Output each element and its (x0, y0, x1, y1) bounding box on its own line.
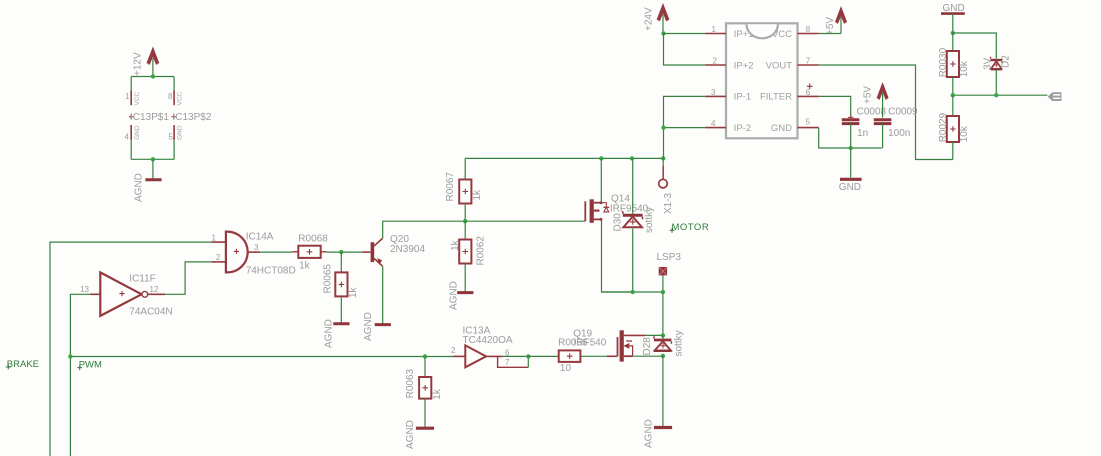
svg-text:+12V: +12V (133, 52, 144, 76)
svg-text:+5V: +5V (825, 17, 836, 35)
svg-text:R0029: R0029 (938, 112, 949, 142)
node IC13A out (526, 354, 530, 358)
svg-text:FILTER: FILTER (760, 92, 792, 103)
SECTION: q20 stage (260, 158, 585, 348)
svg-text:8: 8 (168, 92, 173, 101)
svg-text:1: 1 (712, 25, 717, 34)
node gnd junction (951, 31, 955, 35)
pin 8 of IC13P$2 (168, 91, 184, 106)
resistor R0030 (938, 33, 970, 95)
part IC13P$1 label (129, 112, 169, 123)
wire Q20 emitter down (382, 266, 384, 323)
part IC13P$2 label (171, 112, 211, 123)
svg-text:GND: GND (771, 123, 792, 134)
wire node to R0062 (464, 221, 466, 239)
SECTION: highside (465, 156, 709, 335)
pin 7 of IC13A loop (498, 356, 529, 367)
wire R0068 to node (327, 251, 363, 253)
svg-text:1k: 1k (299, 261, 311, 272)
wire Q20 collector up (383, 221, 466, 238)
svg-text:C0009: C0009 (888, 107, 918, 118)
resistor R0062 (450, 236, 487, 266)
pin 2 of IC14A (211, 253, 226, 262)
resistor R0067 (445, 158, 483, 221)
svg-text:PWM: PWM (79, 359, 102, 370)
wire GND pin jog (819, 128, 882, 148)
resistor R0065 (322, 264, 359, 298)
svg-text:GND: GND (134, 125, 141, 140)
svg-text:sottky: sottky (644, 207, 655, 233)
wire right bottom drop (173, 140, 175, 159)
svg-text:12: 12 (150, 285, 159, 294)
wire BRAKE vertical (50, 242, 211, 456)
resistor R0063 (405, 368, 443, 399)
svg-text:3: 3 (711, 88, 716, 97)
node rail D30 (630, 156, 634, 160)
svg-text:1: 1 (125, 92, 130, 101)
zener D2 (983, 55, 1012, 95)
wire pin1 (664, 33, 706, 35)
label IC11F (129, 274, 156, 285)
svg-text:2N3904: 2N3904 (390, 244, 425, 255)
node PWM junction (68, 354, 72, 358)
svg-text:AGND: AGND (643, 419, 654, 448)
pin 3 of U1 (706, 88, 727, 97)
label +24V (643, 7, 654, 31)
svg-text:+24V: +24V (643, 7, 654, 31)
svg-text:1k: 1k (348, 286, 359, 298)
pin 5 of IC13P$2 (168, 125, 183, 142)
svg-text:IC11F: IC11F (129, 274, 156, 285)
connector output pin (1048, 92, 1062, 101)
wire Q14 source up (600, 158, 602, 202)
svg-text:MOTOR: MOTOR (672, 222, 710, 233)
svg-text:VCC: VCC (134, 91, 141, 105)
svg-text:IP-1: IP-1 (734, 92, 751, 103)
svg-text:10: 10 (560, 363, 572, 374)
supply +24V arrow (658, 6, 669, 21)
svg-text:GND: GND (177, 125, 184, 140)
supply +12V arrow (148, 50, 159, 65)
pin 1 of IC13P$1 (125, 91, 141, 106)
node R0063 junction (423, 354, 427, 358)
transistor Q19 IRF540 (607, 330, 645, 361)
label BRAKE (6, 359, 39, 370)
wire node to R0065 (340, 252, 342, 272)
pin 8 of U1 (798, 25, 819, 34)
svg-text:BRAKE: BRAKE (7, 359, 39, 370)
pin 3 of IC14A (248, 243, 261, 252)
resistor R0029 (938, 95, 970, 159)
diode D30 (613, 158, 655, 292)
wire VOUT net (819, 65, 953, 160)
wire down to pin2 (664, 34, 706, 66)
node gate junction (463, 219, 467, 223)
transistor Q20 (371, 234, 426, 266)
wire top rail (131, 76, 174, 78)
svg-text:2: 2 (451, 346, 456, 355)
svg-text:GND: GND (839, 182, 861, 193)
node top junction (151, 74, 155, 78)
wire left drop (130, 77, 132, 91)
wire to D2 branch (953, 33, 997, 59)
svg-text:X1-3: X1-3 (663, 192, 674, 214)
pin 2 of U1 (706, 57, 727, 66)
wire +24V stem (662, 15, 664, 34)
svg-text:IP+2: IP+2 (734, 60, 754, 71)
capacitor C0009 (874, 93, 918, 148)
svg-text:1k: 1k (472, 189, 483, 201)
wire Q19 drain (645, 334, 663, 336)
svg-text:R0065: R0065 (322, 264, 333, 294)
node pin4 junction (661, 125, 665, 129)
wire FILTER to C0008 (819, 96, 851, 117)
pin 13 of IC11F (80, 285, 100, 294)
svg-text:13: 13 (80, 285, 89, 294)
wire Q14 drain down (601, 219, 633, 292)
transistor Q20 base lead (362, 251, 370, 253)
svg-text:IP-2: IP-2 (734, 123, 751, 134)
svg-text:R0062: R0062 (476, 236, 487, 266)
wire R0062 to AGND (464, 264, 466, 292)
svg-text:100n: 100n (888, 128, 910, 139)
wire +12V stem (152, 58, 154, 77)
svg-text:LSP3: LSP3 (657, 252, 682, 263)
svg-text:8: 8 (806, 25, 811, 34)
label 74AC04N (129, 307, 172, 318)
wire out to node (503, 356, 529, 367)
wire inverter output to AND pin2 (165, 262, 211, 294)
svg-text:74HCT08D: 74HCT08D (246, 266, 296, 277)
connector X1-3 (659, 158, 675, 214)
svg-text:IC13P$1: IC13P$1 (130, 112, 169, 123)
svg-text:3V: 3V (983, 57, 994, 70)
wire gnd stem (850, 148, 852, 178)
svg-text:5: 5 (806, 118, 811, 127)
label IC14A (246, 232, 274, 243)
wire top drain rail (465, 157, 663, 159)
wire R0065 to AGND (340, 296, 342, 322)
op-amp IC11F inverter body (100, 272, 147, 316)
svg-text:2: 2 (712, 57, 717, 66)
pin 6 of U1 (798, 88, 819, 97)
resistor R0068 (292, 233, 328, 271)
transistor Q14 IRF9540 (585, 193, 648, 222)
svg-text:VOUT: VOUT (766, 60, 793, 71)
label Q19 (573, 329, 607, 349)
svg-text:AGND: AGND (133, 173, 144, 202)
SECTION: sensor (643, 6, 953, 193)
wire bottom rail (131, 158, 174, 160)
ground AGND Q19 (643, 419, 672, 448)
wire AGND stem (152, 159, 154, 179)
label AGND (133, 173, 144, 202)
node Q19 source (661, 354, 665, 358)
svg-text:R0068: R0068 (298, 233, 328, 244)
svg-text:6: 6 (806, 88, 811, 97)
pin 5 of U1 (798, 118, 819, 128)
svg-text:IC13P$2: IC13P$2 (173, 112, 212, 123)
svg-text:1k: 1k (450, 239, 461, 251)
node pin1 junction (661, 31, 665, 35)
SECTION: lowside (405, 326, 685, 449)
ic U1 current sensor body (726, 23, 813, 138)
svg-text:5: 5 (168, 133, 173, 142)
wire PWM vertical (70, 294, 92, 456)
svg-text:4: 4 (125, 133, 130, 142)
svg-text:TC4420OA: TC4420OA (463, 335, 513, 346)
svg-text:1k: 1k (432, 388, 443, 400)
ground AGND Q20 (363, 312, 391, 341)
pin 12 of IC11F (148, 285, 166, 294)
pin 1 of IC14A (211, 233, 226, 242)
node motor LSP3 (661, 290, 665, 294)
ground GND top (941, 3, 965, 33)
wire right drop (173, 77, 175, 91)
node rail Q14 (599, 156, 603, 160)
supply +5V arrow pin8 (819, 9, 846, 35)
label MOTOR (670, 222, 710, 233)
ground GND caps (839, 179, 862, 193)
ground AGND R0063 (405, 420, 434, 449)
svg-text:D28: D28 (642, 337, 653, 356)
and-gate IC14A body (226, 232, 248, 273)
label PWM (77, 359, 102, 370)
svg-text:2: 2 (216, 253, 221, 262)
svg-text:R0063: R0063 (405, 368, 416, 398)
pin 1 of U1 (706, 25, 727, 34)
svg-text:1n: 1n (857, 128, 868, 139)
svg-text:IC14A: IC14A (246, 232, 274, 243)
node D2 bottom (994, 93, 998, 97)
node base junction (339, 250, 343, 254)
svg-text:AGND: AGND (448, 281, 459, 310)
svg-text:1: 1 (211, 233, 216, 242)
svg-text:+5V: +5V (862, 86, 873, 104)
wire motor to Q19 (662, 292, 664, 335)
svg-text:R0030: R0030 (938, 47, 949, 77)
svg-text:AGND: AGND (324, 319, 335, 348)
pin 4 of IC13P$1 (125, 125, 141, 142)
svg-text:AGND: AGND (363, 312, 374, 341)
wire left bottom drop (130, 140, 132, 159)
node motor D30 (631, 290, 635, 294)
ground AGND R0065 (324, 319, 350, 348)
svg-text:IRF540: IRF540 (574, 338, 607, 349)
SECTION: divider (938, 3, 1062, 160)
ground AGND bar (145, 178, 161, 181)
svg-text:74AC04N: 74AC04N (129, 307, 172, 318)
wire D28 to AGND (662, 356, 664, 426)
svg-text:IRF9540: IRF9540 (610, 203, 649, 214)
wire motor rail (602, 291, 663, 293)
node Q19 drain (661, 333, 665, 337)
svg-text:10k: 10k (959, 60, 970, 77)
svg-text:4: 4 (711, 119, 716, 128)
node caps gnd (849, 146, 853, 150)
SECTION: power block IC13P (125, 50, 212, 202)
wire node to R0066 (528, 355, 558, 357)
pin 7 of U1 (798, 57, 819, 66)
wire Q19 source (633, 355, 663, 357)
pad LSP3 (657, 252, 682, 275)
svg-text:D30: D30 (613, 213, 624, 232)
svg-text:7: 7 (806, 57, 811, 66)
pin 6 of IC13A (486, 348, 510, 357)
diode D28 (642, 330, 684, 356)
capacitor C0008 (842, 107, 887, 148)
wire R0063 stem (424, 357, 426, 378)
node rail X1-3 (661, 156, 665, 160)
svg-text:R0067: R0067 (445, 172, 456, 202)
svg-text:VCC: VCC (177, 91, 184, 105)
op-amp IC13A driver (451, 326, 513, 368)
wire pin3 down pin4 (664, 96, 706, 158)
wire PWM horizontal (70, 356, 453, 358)
label 74HCT08D (246, 266, 296, 277)
wire R0066 to gate (580, 355, 607, 357)
wire divider node (953, 94, 1048, 96)
SECTION: gates (6, 232, 453, 456)
svg-text:sottky: sottky (673, 330, 684, 356)
label +12V (133, 52, 144, 76)
resistor R0066 (558, 338, 588, 375)
supply +5V arrow C0009 (862, 85, 887, 104)
pin 4 of U1 (706, 119, 727, 128)
wire LSP3 stem (662, 275, 664, 292)
node bottom junction (151, 157, 155, 161)
svg-text:D2: D2 (1001, 55, 1012, 68)
wire gate node to Q14 (465, 220, 585, 222)
svg-text:7: 7 (505, 358, 510, 367)
wire R0063 to AGND (424, 399, 426, 427)
svg-text:AGND: AGND (405, 420, 416, 449)
ground AGND R0062 (448, 281, 473, 310)
svg-text:10k: 10k (959, 125, 970, 142)
node divider mid (951, 93, 955, 97)
wire pin3 to R0068 (260, 251, 292, 253)
svg-text:3: 3 (254, 243, 259, 252)
